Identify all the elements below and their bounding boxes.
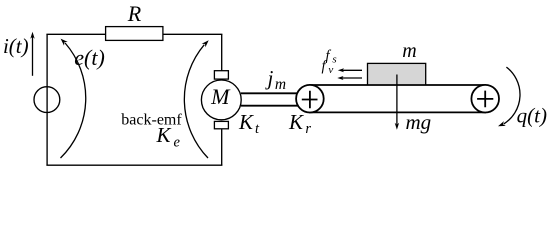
svg-text:back-emf: back-emf [121,112,182,129]
friction force fs arrow [343,69,363,71]
svg-text:q(t): q(t) [517,104,547,128]
source circle on left branch [34,87,60,113]
right pulley cross [477,91,493,108]
svg-text:jm: jm [265,66,287,93]
viscous force fv arrow [342,77,362,79]
wire: top branch left of resistor [46,33,105,35]
motor shaft upper line [241,92,298,94]
gravity arrow mg [396,75,398,125]
wire: top branch right of resistor [163,33,223,35]
left pulley Kr circle [296,85,324,113]
mass m block [368,63,426,84]
svg-text:Kt: Kt [238,110,260,137]
motor shaft lower line [241,105,298,107]
wire: right branch upper (to motor top brush) [221,34,223,71]
svg-text:e(t): e(t) [74,45,105,70]
svg-text:Kr: Kr [288,110,311,137]
motor M circle [201,80,241,120]
wire: bottom branch [46,164,222,166]
motor top brush [214,71,228,79]
left pulley cross [302,91,318,109]
svg-text:m: m [402,40,416,62]
current direction arrow i(t) [32,36,34,76]
belt bottom line [309,111,486,113]
svg-text:R: R [127,1,142,26]
back-emf direction arc with arrow [184,45,208,158]
motor bottom brush [214,121,228,128]
belt top line [309,84,486,86]
svg-text:i(t): i(t) [3,34,29,58]
svg-text:M: M [210,84,231,109]
svg-text:fs: fs [326,48,337,66]
e(t) direction arc with arrow [61,43,86,158]
right pulley circle [471,85,499,113]
wire: right branch lower (from motor bottom brush) [221,129,223,166]
resistor R body [106,27,163,41]
svg-text:mg: mg [406,110,432,134]
wire: left vertical branch [46,34,48,165]
rotation arrow q(t) [504,67,520,124]
